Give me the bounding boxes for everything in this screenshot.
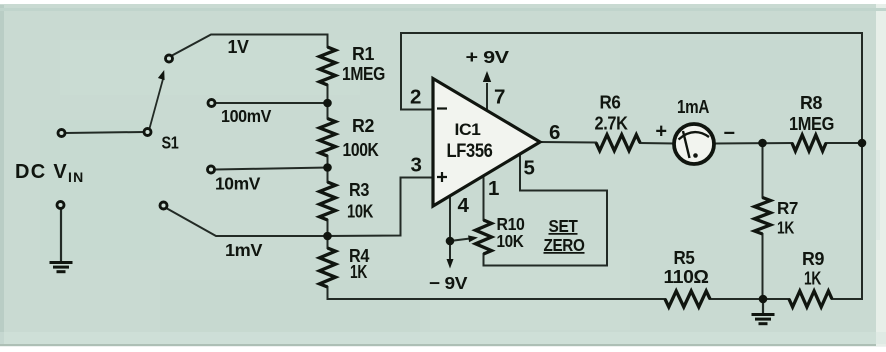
svg-text:−: − <box>723 123 734 145</box>
svg-text:R3: R3 <box>349 180 369 200</box>
svg-text:R7: R7 <box>777 198 798 218</box>
svg-text:+: + <box>655 121 666 143</box>
svg-text:LF356: LF356 <box>447 140 493 162</box>
svg-text:2.7K: 2.7K <box>595 114 628 134</box>
svg-text:100mV: 100mV <box>221 106 272 126</box>
svg-text:1K: 1K <box>350 262 367 282</box>
svg-text:100K: 100K <box>343 140 379 160</box>
svg-text:R8: R8 <box>800 93 822 113</box>
svg-text:1K: 1K <box>777 218 795 238</box>
svg-text:4: 4 <box>457 194 469 217</box>
svg-text:R5: R5 <box>674 248 695 268</box>
svg-text:1MEG: 1MEG <box>342 64 385 84</box>
svg-text:1mA: 1mA <box>677 97 709 117</box>
svg-text:5: 5 <box>523 157 534 180</box>
svg-text:110Ω: 110Ω <box>664 267 709 287</box>
svg-text:1mV: 1mV <box>225 240 263 260</box>
svg-text:R6: R6 <box>600 93 621 113</box>
svg-text:IC1: IC1 <box>455 120 481 139</box>
svg-text:1K: 1K <box>804 269 821 289</box>
svg-text:R9: R9 <box>802 249 824 269</box>
svg-text:7: 7 <box>494 86 505 109</box>
svg-text:R1: R1 <box>352 44 374 64</box>
svg-text:6: 6 <box>549 121 560 144</box>
svg-text:10K: 10K <box>347 202 373 222</box>
svg-text:2: 2 <box>410 86 421 109</box>
svg-text:1MEG: 1MEG <box>789 114 834 134</box>
svg-text:ZERO: ZERO <box>544 235 585 255</box>
svg-text:1V: 1V <box>228 37 249 57</box>
svg-text:+ 9V: + 9V <box>466 47 510 67</box>
svg-text:1: 1 <box>488 177 499 200</box>
svg-text:− 9V: − 9V <box>429 273 468 293</box>
svg-text:SET: SET <box>549 216 579 236</box>
svg-text:R2: R2 <box>352 116 374 136</box>
svg-text:S1: S1 <box>162 133 180 153</box>
svg-text:10K: 10K <box>497 231 525 251</box>
svg-text:10mV: 10mV <box>215 174 261 194</box>
svg-text:3: 3 <box>410 154 421 177</box>
